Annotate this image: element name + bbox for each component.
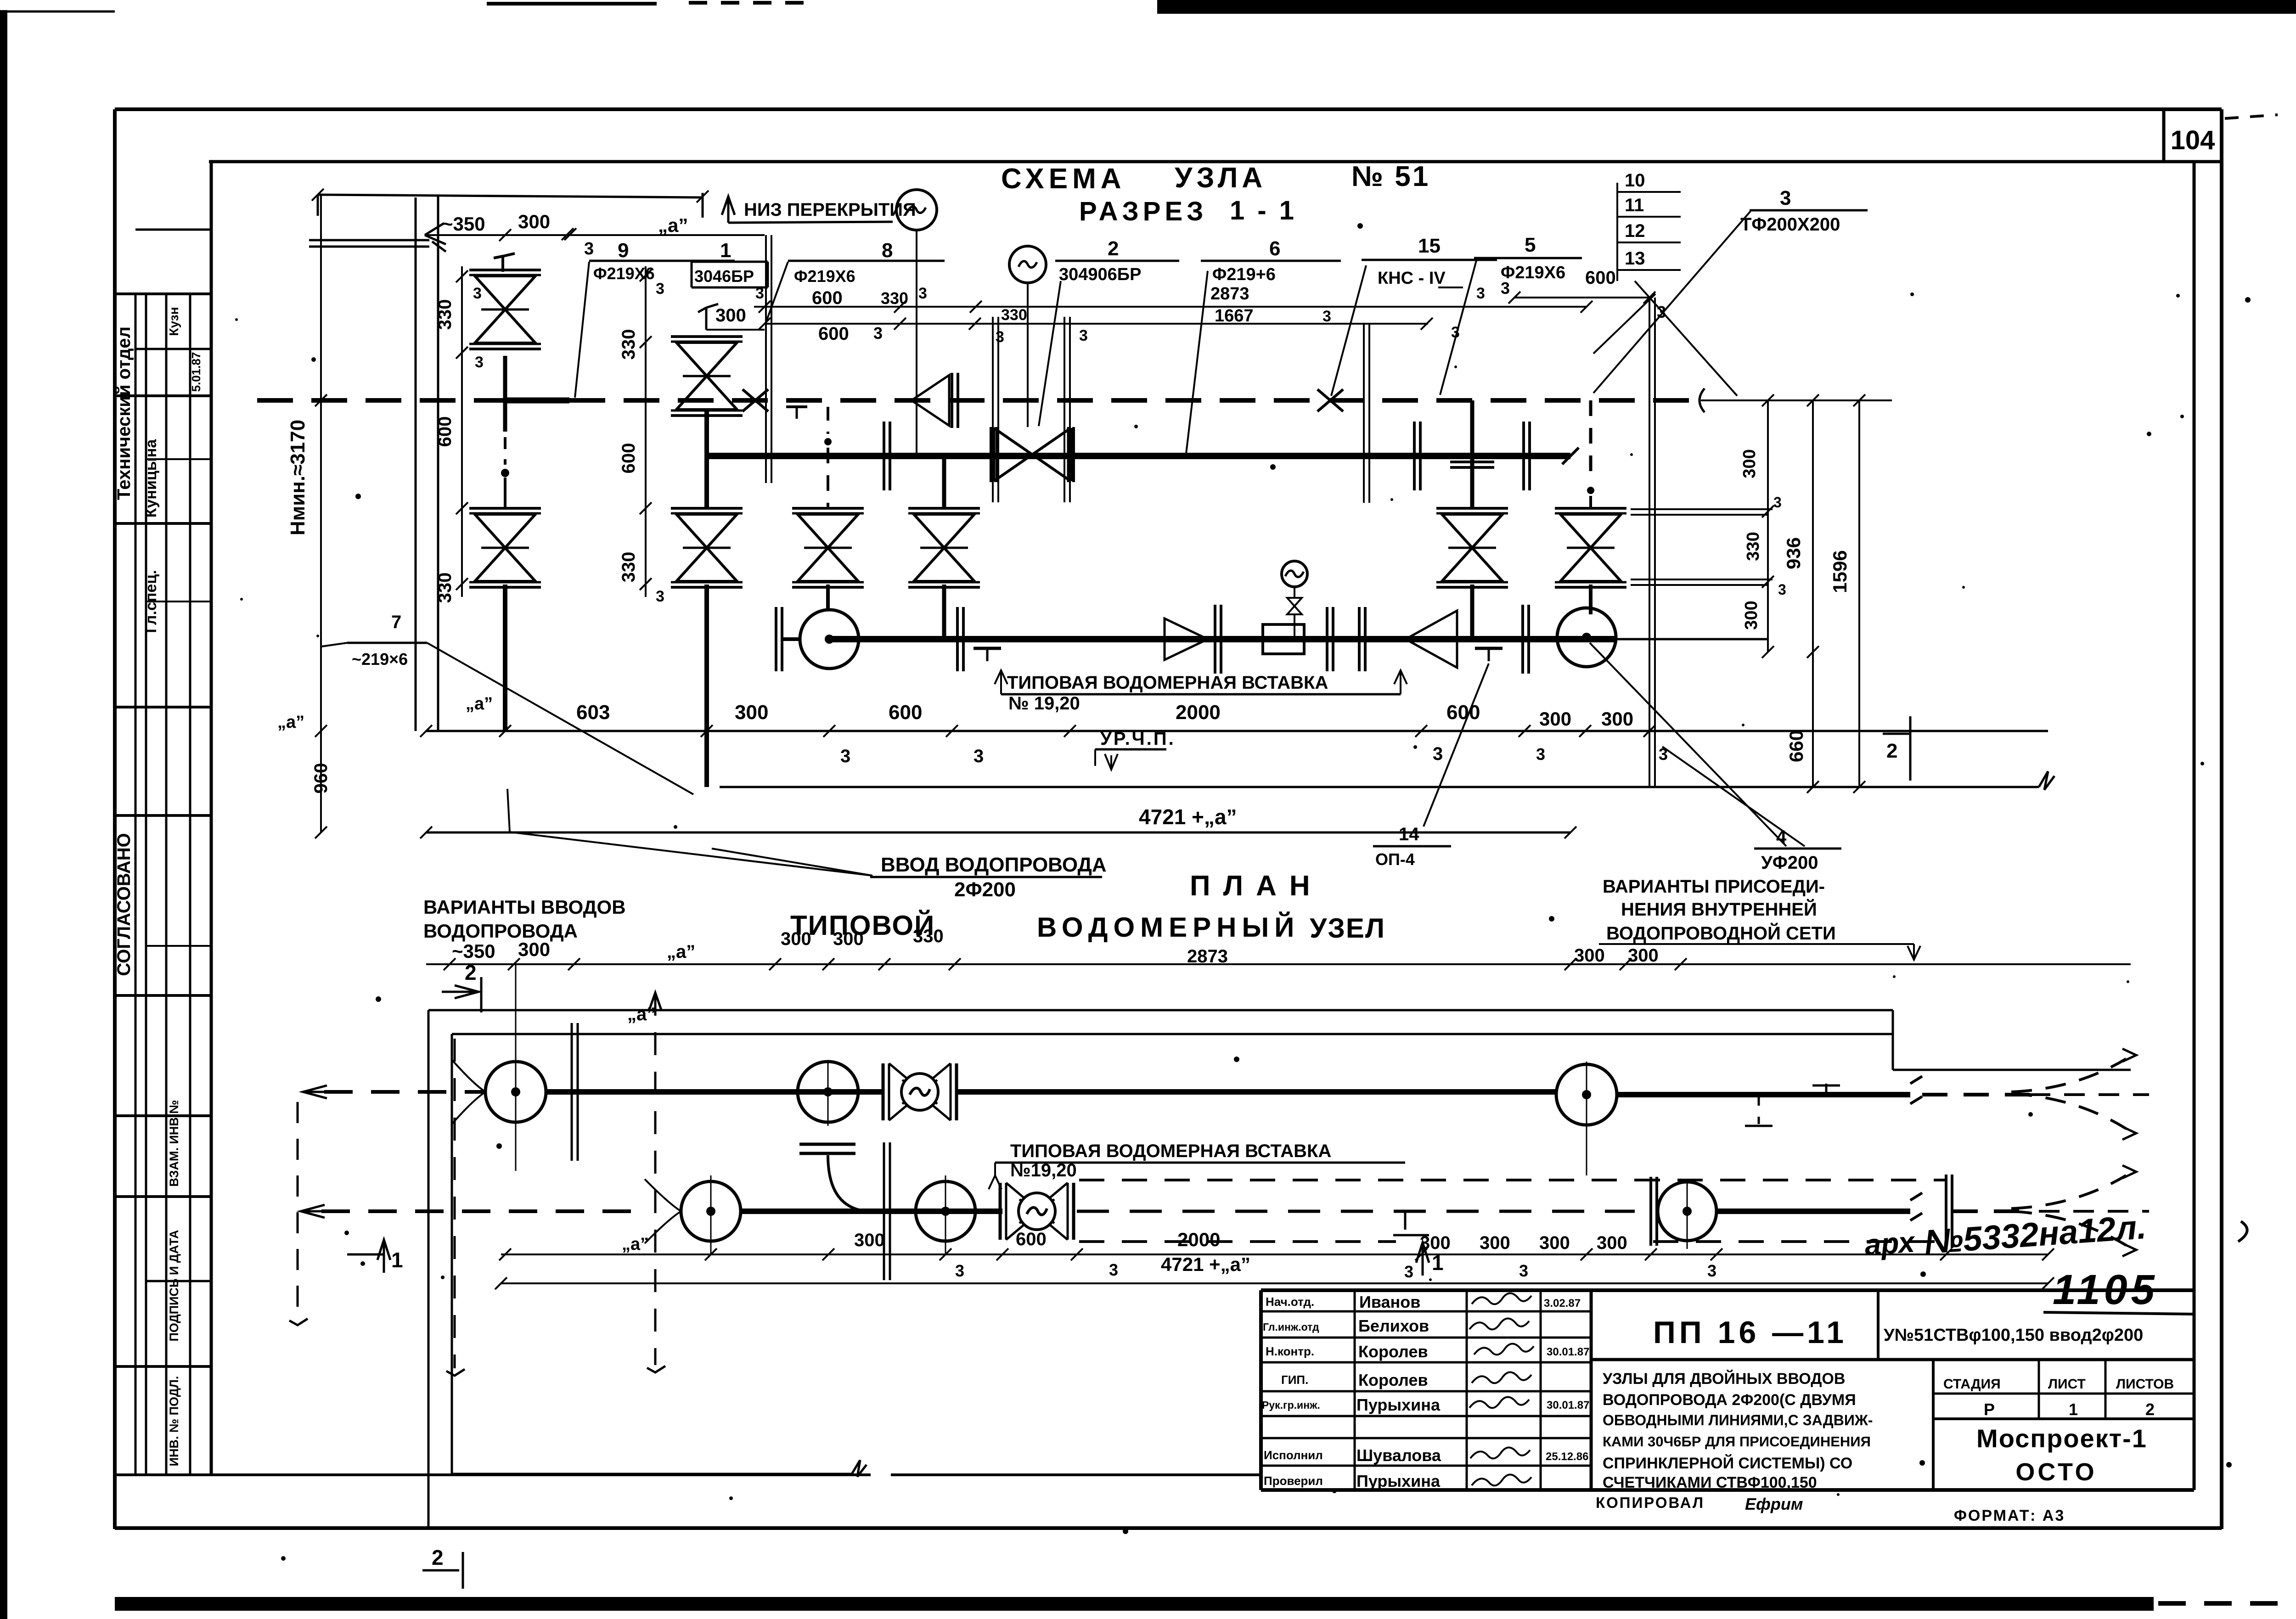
svg-text:ΦОРМАТ: А3: ΦОРМАТ: А3 <box>1954 1507 2065 1524</box>
svg-text:Исполнил: Исполнил <box>1264 1448 1323 1462</box>
svg-text:Королев: Королев <box>1358 1371 1428 1389</box>
svg-text:ОП-4: ОП-4 <box>1375 850 1415 869</box>
svg-text:330: 330 <box>435 573 455 603</box>
svg-text:4721 +„a”: 4721 +„a” <box>1139 805 1237 829</box>
svg-text:ВОДОПРОВОДНОЙ СЕТИ: ВОДОПРОВОДНОЙ СЕТИ <box>1606 922 1836 944</box>
svg-text:3: 3 <box>473 285 482 302</box>
svg-text:„a”: „a” <box>622 1235 649 1254</box>
svg-text:660: 660 <box>1785 730 1807 762</box>
svg-text:Гл.инж.отд: Гл.инж.отд <box>1263 1321 1319 1333</box>
svg-text:600: 600 <box>435 416 455 447</box>
svg-text:300: 300 <box>781 929 811 949</box>
svg-text:3: 3 <box>1778 581 1786 598</box>
svg-text:3: 3 <box>1773 494 1782 511</box>
svg-text:3: 3 <box>656 588 664 605</box>
svg-text:~219×6: ~219×6 <box>352 650 408 669</box>
svg-text:Φ219X6: Φ219X6 <box>794 267 855 286</box>
svg-text:1: 1 <box>391 1248 403 1272</box>
svg-text:13: 13 <box>1625 248 1645 269</box>
svg-text:300: 300 <box>833 929 864 949</box>
svg-text:14: 14 <box>1399 824 1419 844</box>
svg-text:„a”: „a” <box>277 713 304 732</box>
svg-text:3: 3 <box>1404 1262 1413 1281</box>
svg-text:~350: ~350 <box>442 213 485 235</box>
svg-text:1596: 1596 <box>1829 550 1851 593</box>
svg-text:11: 11 <box>1625 195 1644 215</box>
svg-text:Моспроект-1: Моспроект-1 <box>1976 1424 2147 1453</box>
svg-text:2: 2 <box>465 961 477 984</box>
svg-text:ГИП.: ГИП. <box>1281 1373 1308 1387</box>
svg-text:„a”: „a” <box>466 694 493 714</box>
svg-text:4: 4 <box>1776 827 1787 847</box>
svg-text:1: 1 <box>720 239 731 262</box>
svg-text:300: 300 <box>1420 1233 1451 1253</box>
svg-text:960: 960 <box>311 763 331 794</box>
svg-text:ЛИСТОВ: ЛИСТОВ <box>2116 1377 2174 1392</box>
svg-text:Иванов: Иванов <box>1359 1293 1420 1311</box>
svg-text:1667: 1667 <box>1215 306 1254 326</box>
svg-text:ОБВОДНЫМИ ЛИНИЯМИ,С ЗАДВИЖ-: ОБВОДНЫМИ ЛИНИЯМИ,С ЗАДВИЖ- <box>1603 1412 1873 1428</box>
svg-text:3: 3 <box>1780 187 1791 209</box>
svg-text:300: 300 <box>518 939 550 960</box>
svg-text:15: 15 <box>1418 235 1441 257</box>
svg-text:1: 1 <box>2069 1400 2078 1419</box>
svg-text:ПЛАН: ПЛАН <box>1190 870 1323 902</box>
svg-text:ВАРИАНТЫ ПРИСОЕДИ-: ВАРИАНТЫ ПРИСОЕДИ- <box>1603 877 1825 897</box>
svg-text:9: 9 <box>618 239 629 262</box>
svg-text:УΦ200: УΦ200 <box>1761 853 1818 873</box>
svg-text:600: 600 <box>889 701 922 724</box>
svg-text:30.01.87: 30.01.87 <box>1547 1346 1589 1358</box>
svg-text:3: 3 <box>1322 308 1331 325</box>
svg-text:НЕНИЯ ВНУТРЕННЕЙ: НЕНИЯ ВНУТРЕННЕЙ <box>1621 899 1817 920</box>
svg-text:300: 300 <box>735 701 768 724</box>
svg-text:936: 936 <box>1783 537 1804 569</box>
svg-text:300: 300 <box>1597 1233 1627 1253</box>
svg-text:3: 3 <box>1079 327 1088 344</box>
svg-text:ПП 16 —11: ПП 16 —11 <box>1653 1315 1847 1350</box>
svg-text:3: 3 <box>755 285 764 302</box>
svg-text:Куницына: Куницына <box>142 439 160 518</box>
svg-text:3: 3 <box>1536 745 1545 764</box>
svg-text:3: 3 <box>1519 1261 1528 1280</box>
svg-text:ПОДПИСЬ И ДАТА: ПОДПИСЬ И ДАТА <box>167 1230 181 1341</box>
svg-text:ТИПОВАЯ ВОДОМЕРНАЯ ВСТАВКА: ТИПОВАЯ ВОДОМЕРНАЯ ВСТАВКА <box>1010 1141 1331 1161</box>
svg-text:3: 3 <box>1707 1261 1716 1280</box>
svg-text:330: 330 <box>1744 532 1763 561</box>
svg-text:600: 600 <box>818 324 849 344</box>
svg-text:РАЗРЕЗ: РАЗРЕЗ <box>1079 197 1208 226</box>
svg-text:Ефрим: Ефрим <box>1745 1495 1803 1513</box>
svg-text:2000: 2000 <box>1176 701 1221 724</box>
svg-text:330: 330 <box>435 299 455 330</box>
svg-text:НИЗ ПЕРЕКРЫТИЯ: НИЗ ПЕРЕКРЫТИЯ <box>744 200 916 220</box>
svg-text:УЗЛЫ ДЛЯ ДВОЙНЫХ ВВОДОВ: УЗЛЫ ДЛЯ ДВОЙНЫХ ВВОДОВ <box>1603 1370 1845 1388</box>
svg-text:7: 7 <box>391 612 401 632</box>
svg-text:330: 330 <box>1001 306 1027 324</box>
svg-text:10: 10 <box>1625 170 1645 191</box>
svg-text:ВОДОПРОВОДА 2Φ200(С ДВУМЯ: ВОДОПРОВОДА 2Φ200(С ДВУМЯ <box>1603 1391 1856 1409</box>
svg-text:3: 3 <box>1657 303 1666 321</box>
svg-text:304906БР: 304906БР <box>1059 265 1141 284</box>
svg-text:ВЗАМ. ИНВ.№: ВЗАМ. ИНВ.№ <box>167 1100 181 1186</box>
svg-text:600: 600 <box>1016 1229 1047 1249</box>
svg-text:2873: 2873 <box>1210 284 1249 304</box>
svg-text:№19,20: №19,20 <box>1010 1160 1077 1181</box>
svg-text:Кузн: Кузн <box>167 307 181 336</box>
svg-text:УР.Ч.П.: УР.Ч.П. <box>1100 729 1176 749</box>
svg-text:ОСТО: ОСТО <box>2015 1458 2097 1486</box>
svg-text:3: 3 <box>996 328 1004 346</box>
svg-text:2873: 2873 <box>1187 946 1228 967</box>
svg-text:104: 104 <box>2171 125 2215 155</box>
svg-text:3: 3 <box>955 1261 964 1280</box>
svg-text:2Φ200: 2Φ200 <box>954 878 1016 901</box>
svg-text:арх: арх <box>1863 1225 1917 1262</box>
svg-text:СХЕМА: СХЕМА <box>1001 163 1126 195</box>
svg-text:ТΦ200X200: ТΦ200X200 <box>1740 214 1840 235</box>
svg-text:6: 6 <box>1269 237 1280 260</box>
svg-text:Технический отдел: Технический отдел <box>114 326 134 500</box>
svg-text:СТАДИЯ: СТАДИЯ <box>1943 1377 2001 1392</box>
svg-text:300: 300 <box>1574 945 1605 966</box>
svg-text:300: 300 <box>1601 708 1633 730</box>
svg-text:Н.контр.: Н.контр. <box>1266 1344 1314 1358</box>
svg-text:603: 603 <box>576 701 610 724</box>
svg-text:2: 2 <box>432 1546 444 1569</box>
svg-text:300: 300 <box>715 305 746 326</box>
svg-text:300: 300 <box>1539 708 1571 730</box>
svg-text:3: 3 <box>1109 1260 1118 1279</box>
svg-text:3: 3 <box>584 239 594 259</box>
svg-text:5: 5 <box>1525 234 1536 256</box>
svg-text:КНС - IV: КНС - IV <box>1378 269 1446 288</box>
svg-text:Гл.спец.: Гл.спец. <box>142 570 160 633</box>
svg-text:3: 3 <box>840 746 850 766</box>
svg-text:5.01.87: 5.01.87 <box>189 352 203 392</box>
svg-text:Рук.гр.инж.: Рук.гр.инж. <box>1262 1399 1320 1411</box>
svg-text:Королев: Королев <box>1358 1342 1428 1361</box>
svg-text:КАМИ 30Ч6БР ДЛЯ ПРИСОЕДИНЕНИЯ: КАМИ 30Ч6БР ДЛЯ ПРИСОЕДИНЕНИЯ <box>1603 1433 1871 1450</box>
svg-text:330: 330 <box>619 552 639 583</box>
svg-text:600: 600 <box>1446 701 1480 724</box>
svg-text:УЗЕЛ: УЗЕЛ <box>1310 913 1385 944</box>
svg-text:300: 300 <box>1539 1233 1570 1253</box>
svg-text:СПРИНКЛЕРНОЙ СИСТЕМЫ) СО: СПРИНКЛЕРНОЙ СИСТЕМЫ) СО <box>1603 1454 1852 1472</box>
svg-text:3: 3 <box>1501 279 1510 298</box>
svg-text:3: 3 <box>656 280 664 298</box>
svg-text:4721 +„a”: 4721 +„a” <box>1161 1254 1250 1275</box>
svg-text:3: 3 <box>1433 744 1443 764</box>
svg-text:ВВОД ВОДОПРОВОДА: ВВОД ВОДОПРОВОДА <box>881 854 1107 876</box>
svg-text:Нач.отд.: Нач.отд. <box>1266 1295 1314 1309</box>
svg-text:3: 3 <box>873 324 883 343</box>
svg-text:„a”: „a” <box>667 942 695 962</box>
svg-text:600: 600 <box>812 288 843 308</box>
svg-text:ЛИСТ: ЛИСТ <box>2048 1377 2086 1392</box>
svg-text:Шувалова: Шувалова <box>1356 1446 1441 1465</box>
svg-text:300: 300 <box>1480 1233 1510 1253</box>
svg-text:№ 51: № 51 <box>1351 161 1430 192</box>
svg-text:300: 300 <box>1628 945 1659 966</box>
svg-text:Нмин.≈3170: Нмин.≈3170 <box>287 420 309 535</box>
svg-text:330: 330 <box>881 289 908 308</box>
svg-text:12: 12 <box>1625 221 1645 241</box>
svg-text:3: 3 <box>1476 285 1485 302</box>
svg-text:Φ219X6: Φ219X6 <box>1501 263 1565 282</box>
svg-text:600: 600 <box>1585 268 1616 288</box>
svg-text:1 - 1: 1 - 1 <box>1230 196 1297 225</box>
svg-text:Пурыхина: Пурыхина <box>1356 1472 1441 1490</box>
svg-text:СОГЛАСОВАНО: СОГЛАСОВАНО <box>114 833 134 976</box>
svg-text:3046БР: 3046БР <box>694 267 754 286</box>
svg-text:30.01.87: 30.01.87 <box>1547 1399 1589 1411</box>
svg-text:3.02.87: 3.02.87 <box>1544 1297 1581 1310</box>
svg-text:8: 8 <box>882 239 893 262</box>
svg-text:„a”: „a” <box>658 214 688 236</box>
svg-text:ИНВ. № ПОДЛ.: ИНВ. № ПОДЛ. <box>167 1376 181 1467</box>
svg-text:КОПИРОВАЛ: КОПИРОВАЛ <box>1596 1494 1705 1511</box>
svg-text:У№51СТВφ100,150 ввод2φ200: У№51СТВφ100,150 ввод2φ200 <box>1884 1326 2143 1345</box>
svg-text:300: 300 <box>854 1230 885 1250</box>
svg-text:2000: 2000 <box>1177 1229 1220 1250</box>
svg-text:300: 300 <box>1740 449 1759 478</box>
svg-text:2: 2 <box>1886 740 1897 762</box>
svg-text:3: 3 <box>1451 324 1460 341</box>
svg-text:300: 300 <box>518 211 550 232</box>
svg-text:Проверил: Проверил <box>1264 1474 1323 1488</box>
svg-text:1105: 1105 <box>2053 1266 2158 1313</box>
svg-text:ВОДОПРОВОДА: ВОДОПРОВОДА <box>423 920 578 942</box>
svg-text:2: 2 <box>1108 237 1119 260</box>
svg-text:3: 3 <box>974 746 984 766</box>
svg-text:СЧЕТЧИКАМИ СТВΦ100,150: СЧЕТЧИКАМИ СТВΦ100,150 <box>1603 1474 1817 1491</box>
svg-text:2: 2 <box>2145 1400 2155 1419</box>
svg-text:25.12.86: 25.12.86 <box>1546 1450 1588 1463</box>
svg-text:ВАРИАНТЫ ВВОДОВ: ВАРИАНТЫ ВВОДОВ <box>423 896 626 918</box>
svg-text:№ 19,20: № 19,20 <box>1008 693 1080 714</box>
svg-text:Φ219+6: Φ219+6 <box>1212 265 1276 284</box>
svg-text:Пурыхина: Пурыхина <box>1356 1395 1441 1414</box>
svg-text:300: 300 <box>1742 601 1761 630</box>
svg-text:Р: Р <box>1984 1400 1995 1419</box>
svg-text:330: 330 <box>619 329 639 360</box>
svg-text:ТИПОВАЯ ВОДОМЕРНАЯ ВСТАВКА: ТИПОВАЯ ВОДОМЕРНАЯ ВСТАВКА <box>1007 673 1328 693</box>
svg-text:Белихов: Белихов <box>1358 1316 1429 1335</box>
svg-text:~350: ~350 <box>452 940 495 962</box>
svg-text:ВОДОМЕРНЫЙ: ВОДОМЕРНЫЙ <box>1037 912 1300 943</box>
svg-text:3: 3 <box>475 354 484 371</box>
svg-text:330: 330 <box>913 926 944 946</box>
svg-text:„a”: „a” <box>627 1004 656 1024</box>
svg-text:600: 600 <box>619 443 639 474</box>
svg-text:3: 3 <box>918 285 927 302</box>
svg-text:УЗЛА: УЗЛА <box>1175 162 1266 194</box>
